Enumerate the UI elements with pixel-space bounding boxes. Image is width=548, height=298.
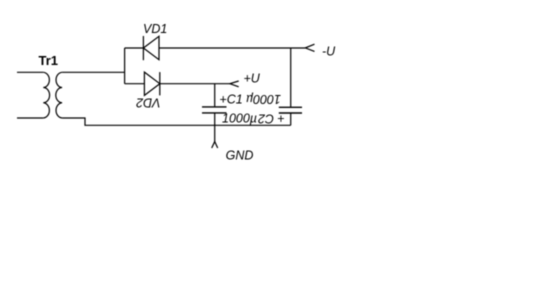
wire GND stub [214,125,216,141]
terminal arrow +U [230,81,239,87]
transformer Tr1 secondary winding [56,72,62,118]
wire C1 bottom lead [214,113,216,125]
svg-text:GND: GND [226,148,254,162]
wire VD1 to -U [159,47,305,49]
wire secondary top lead to diode junction [62,71,125,73]
terminal arrow -U [305,44,314,51]
svg-text:Tr1: Tr1 [39,53,59,68]
svg-text:-U: -U [322,45,336,59]
wire primary top lead [17,71,43,73]
svg-text:+ C2: + C2 [258,111,285,125]
wire C2 top branch from -U rail [290,48,292,107]
svg-text:VD2: VD2 [136,95,160,109]
transformer Tr1 primary winding [43,72,49,118]
wire VD2 to +U [160,83,230,85]
wire C1 top lead [214,84,216,107]
capacitor C1 [202,107,227,113]
wire VD1 anode lead [125,47,144,49]
terminal arrow GND [212,142,218,148]
svg-text:VD1: VD1 [143,22,167,36]
wire VD2 anode lead [125,83,145,85]
svg-text:1000µ: 1000µ [222,111,257,125]
svg-text:+C1: +C1 [219,92,242,106]
svg-text:+U: +U [244,72,261,86]
capacitor C2 [279,107,302,113]
wire primary bottom lead [17,117,43,119]
wire C2 bottom lead [290,113,292,125]
svg-text:1000µ: 1000µ [246,92,281,106]
wire diode junction vertical [124,48,126,84]
diode VD1 [143,36,159,60]
wire secondary bottom lead / GND rail [62,118,291,125]
diode VD2 [144,72,159,95]
